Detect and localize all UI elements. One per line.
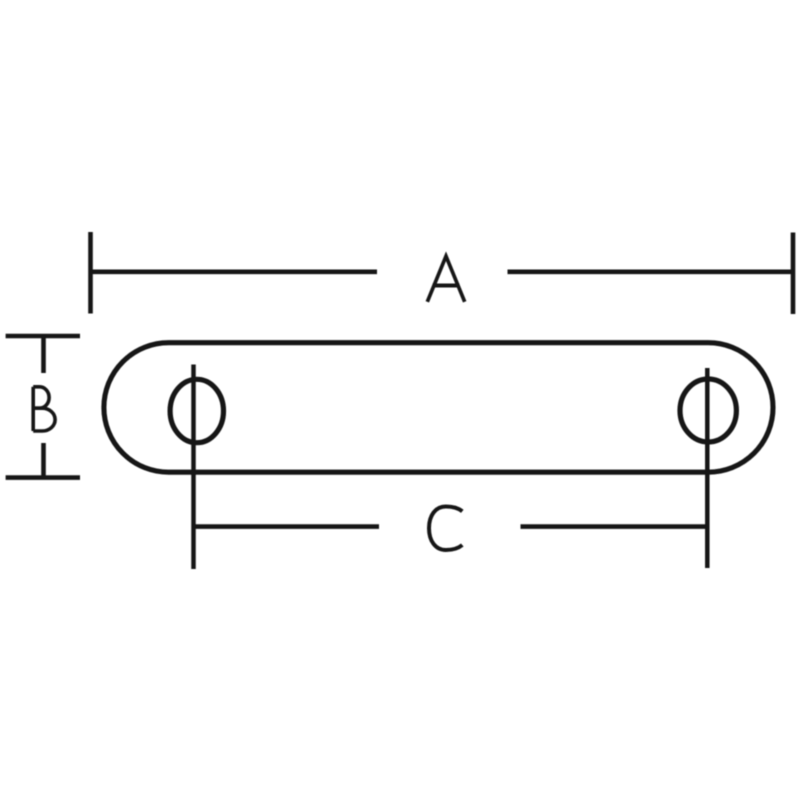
dimension C: leader line right segment bbox=[521, 524, 708, 529]
dimension A: label letter A bbox=[427, 256, 464, 302]
dimension C: left extension line through left hole bbox=[191, 365, 196, 570]
dimension B: label letter B bbox=[33, 387, 55, 431]
dimension A: left extension bar bbox=[88, 232, 93, 314]
dimension B: top tick bbox=[6, 334, 80, 339]
dimension C: label letter C bbox=[429, 507, 462, 551]
dimension A: right extension bar bbox=[791, 233, 796, 315]
dimension C: right extension line through right hole bbox=[705, 368, 710, 568]
right hole bbox=[680, 379, 736, 442]
left hole bbox=[170, 379, 223, 442]
dimension B: vertical leader upper segment bbox=[41, 336, 46, 373]
part outline: stadium shaped plate bbox=[104, 343, 773, 473]
dimension A: leader line left segment bbox=[91, 269, 378, 274]
dimension B: bottom tick bbox=[6, 475, 80, 480]
dimension C: leader line left segment bbox=[194, 524, 380, 529]
dimension A: leader line right segment bbox=[508, 269, 794, 274]
dimension B: vertical leader lower segment bbox=[41, 443, 46, 478]
